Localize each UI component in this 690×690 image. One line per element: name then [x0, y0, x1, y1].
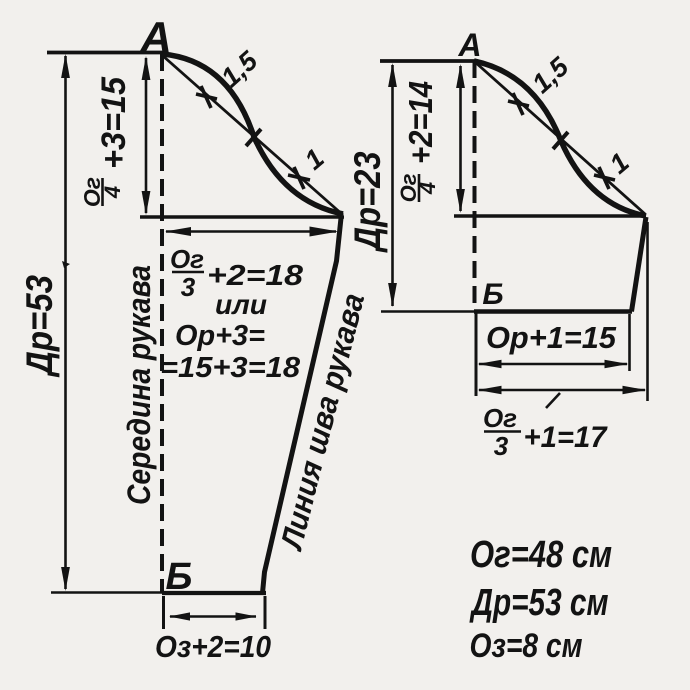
dimension line Ог/4+2=14 (double arrows) [459, 66, 462, 211]
dimension line Др=23 (right pattern, double arrows) [391, 65, 394, 306]
label 1 (left) [299, 143, 330, 176]
midpoint tick (right chord) [553, 132, 568, 149]
dimension arrow Ог/3+2=18 (horizontal double arrow) [166, 230, 336, 233]
cross mark upper (left chord 1/4) [196, 86, 217, 108]
svg-text:+3=15: +3=15 [95, 76, 133, 169]
cross mark lower (left chord 3/4) [288, 167, 310, 189]
dimension arrow Оз+2=10 [170, 615, 256, 618]
svg-text:Др=53 см: Др=53 см [469, 582, 608, 624]
top extension line (right pattern) [380, 59, 478, 63]
svg-text:4: 4 [100, 186, 125, 199]
dashed centre line Середина рукава [160, 54, 164, 592]
extension line from underarm corner (right) [646, 222, 649, 401]
svg-text:+2=18: +2=18 [207, 260, 304, 292]
svg-text:Ор+3=: Ор+3= [175, 320, 265, 352]
centre line extension below hem (right) [475, 313, 478, 396]
cross mark upper (right chord 1/4) [508, 93, 529, 115]
svg-text:A: A [457, 27, 481, 63]
svg-text:Др=53: Др=53 [19, 275, 60, 378]
side seam edge (right pattern, thick) [632, 217, 647, 312]
label Ог/4 +3=15 (rotated fraction) [79, 76, 133, 207]
underarm line (right) [454, 214, 646, 218]
construction chord (right) [475, 62, 645, 214]
dimension arrow Ог/3+1=17 [479, 389, 645, 392]
dashed centre line (right pattern) [473, 61, 477, 311]
label 1,5 (right) [526, 51, 575, 99]
midpoint tick (left chord) [246, 129, 261, 146]
svg-text:Др=23: Др=23 [347, 151, 388, 253]
svg-text:3: 3 [494, 431, 509, 461]
extension ticks for Оз dimension [162, 596, 165, 629]
top extension line (left pattern) [47, 51, 168, 55]
seam line Линия шва рукава (thick slant) [263, 218, 342, 593]
svg-text:Оз=8 см: Оз=8 см [470, 627, 583, 665]
label 1,5 (left) [215, 45, 264, 93]
sleeve cap curve (right, thick S-curve) [474, 61, 646, 216]
extension tick right of hem [628, 314, 631, 371]
cross mark lower (right chord 3/4) [594, 167, 615, 189]
svg-text:Б: Б [482, 278, 503, 311]
underarm line (left) [140, 215, 344, 219]
dimension arrow Ор+1=15 [479, 363, 627, 366]
svg-text:Ог: Ог [170, 244, 204, 274]
bottom edge of sleeve (left, thick) [162, 591, 266, 595]
svg-text:Ог=48 см: Ог=48 см [470, 534, 612, 576]
svg-text:+1=17: +1=17 [524, 421, 608, 454]
svg-text:или: или [215, 289, 267, 320]
svg-text:Оз+2=10: Оз+2=10 [155, 629, 271, 664]
label 1 (right) [604, 147, 635, 180]
label Линия шва рукава (rotated) [273, 290, 371, 554]
label Ог/3 fraction (right) [483, 403, 521, 461]
svg-text:Ог: Ог [483, 403, 517, 433]
label Др=53 (rotated) [19, 275, 60, 378]
svg-text:4: 4 [415, 182, 440, 195]
label Ог/4 +2=14 (rotated fraction) [396, 81, 440, 202]
svg-text:+2=14: +2=14 [402, 81, 439, 164]
dimension line Ог/4+3=15 (inner vertical, double arrows) [145, 58, 148, 213]
label Середина рукава (rotated) [121, 265, 157, 505]
dimension line Др=53 (left vertical, double arrows) [64, 56, 67, 589]
svg-text:3: 3 [181, 272, 196, 302]
label Др=23 (rotated) [347, 151, 388, 253]
hem edge (right, thick) [474, 309, 632, 314]
construction chord A to underarm corner (left) [163, 56, 343, 215]
svg-text:Середина рукава: Середина рукава [121, 265, 157, 505]
bottom extension line (left) [51, 591, 162, 594]
svg-text:Ор+1=15: Ор+1=15 [486, 320, 617, 355]
leader slash [546, 393, 560, 408]
label Ог/3 fraction (left) [170, 244, 204, 302]
svg-text:=15+3=18: =15+3=18 [160, 352, 301, 384]
sleeve cap curve (left, thick S-curve) [162, 54, 343, 214]
hem extension line (right) [381, 310, 474, 313]
small scan fleck on Др line [62, 261, 70, 268]
